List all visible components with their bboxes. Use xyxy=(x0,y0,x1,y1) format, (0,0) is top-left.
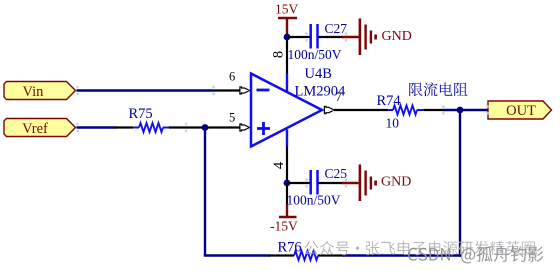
port Vref xyxy=(4,119,76,138)
svg-text:100n/50V: 100n/50V xyxy=(288,47,342,62)
svg-text:Vin: Vin xyxy=(23,84,45,100)
svg-text:U4B: U4B xyxy=(305,66,332,82)
wire R74 to OUT xyxy=(443,109,489,111)
wire feedback right vertical xyxy=(459,110,461,257)
power 15V xyxy=(275,2,299,38)
port Vin xyxy=(4,82,76,101)
svg-text:-15V: -15V xyxy=(270,219,298,234)
svg-text:C25: C25 xyxy=(325,166,348,181)
node A junction xyxy=(202,124,209,131)
watermark gongzhonghao xyxy=(304,241,534,255)
label 限流电阻 xyxy=(409,82,467,96)
wire feedback left vertical xyxy=(204,128,206,256)
svg-text:10: 10 xyxy=(386,116,400,131)
pin 4 xyxy=(271,147,287,184)
node junction 15V rail xyxy=(284,34,291,41)
wire feedback bottom right xyxy=(343,254,461,256)
node junction -15V rail xyxy=(284,180,291,187)
svg-text:OUT: OUT xyxy=(506,103,536,119)
svg-text:R76: R76 xyxy=(278,240,302,256)
wire C27 to GND xyxy=(319,36,359,38)
capacitor C25 xyxy=(287,166,348,208)
ground GND top xyxy=(360,19,412,56)
pin 6 xyxy=(213,70,250,95)
resistor R75 xyxy=(116,106,207,132)
svg-text:15V: 15V xyxy=(275,2,299,17)
svg-text:5: 5 xyxy=(229,111,235,125)
svg-text:R74: R74 xyxy=(377,93,402,109)
wire Vin to pin 6 xyxy=(77,89,214,91)
wire junction to C25 xyxy=(288,182,310,184)
node junction output xyxy=(457,107,464,114)
wire Vref to R75 xyxy=(77,126,117,128)
wire C25 to GND xyxy=(319,182,359,184)
op-amp U4B LM2904 xyxy=(251,66,346,147)
svg-text:8: 8 xyxy=(271,51,287,58)
svg-text:GND: GND xyxy=(382,29,412,44)
pin 8 xyxy=(271,37,287,74)
svg-text:C27: C27 xyxy=(325,21,348,36)
pin 7 xyxy=(324,90,388,114)
port OUT xyxy=(488,101,552,119)
resistor R76 xyxy=(269,240,344,261)
wire junction to C27 xyxy=(288,36,310,38)
resistor R74 xyxy=(377,93,444,131)
svg-text:Vref: Vref xyxy=(22,121,48,137)
pin 5 xyxy=(208,111,250,132)
svg-text:4: 4 xyxy=(271,161,287,169)
svg-text:100n/50V: 100n/50V xyxy=(287,193,341,208)
wire feedback bottom left xyxy=(204,254,270,256)
compile marks xyxy=(76,32,488,187)
svg-text:GND: GND xyxy=(381,175,411,190)
svg-text:7: 7 xyxy=(336,90,342,104)
svg-text:6: 6 xyxy=(229,70,235,84)
ground GND bottom xyxy=(360,165,411,202)
svg-text:R75: R75 xyxy=(129,106,153,122)
capacitor C27 xyxy=(288,21,348,62)
watermark CSDN xyxy=(408,246,543,263)
power -15V xyxy=(270,183,298,234)
